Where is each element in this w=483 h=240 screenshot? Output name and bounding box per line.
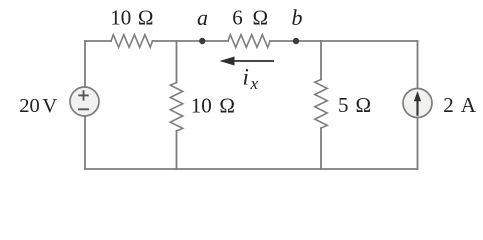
svg-text:6 Ω: 6 Ω	[232, 6, 268, 30]
svg-text:a: a	[197, 5, 208, 30]
svg-text:10 Ω: 10 Ω	[191, 94, 235, 118]
svg-text:5 Ω: 5 Ω	[338, 93, 371, 117]
svg-text:20 V: 20 V	[19, 95, 57, 117]
svg-text:2 A: 2 A	[443, 93, 476, 117]
svg-text:10 Ω: 10 Ω	[110, 6, 153, 30]
svg-text:b: b	[292, 5, 303, 30]
svg-text:i: i	[243, 64, 249, 89]
svg-text:x: x	[250, 74, 259, 93]
